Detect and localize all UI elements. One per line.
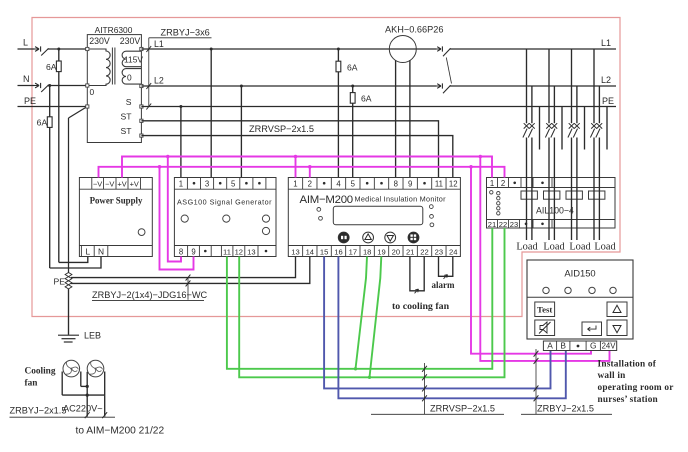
svg-text:S: S (126, 97, 132, 107)
svg-text:9: 9 (408, 180, 412, 189)
svg-text:2: 2 (501, 179, 505, 188)
fan wiring (61, 372, 63, 396)
AID150 indicator LEDs (543, 287, 549, 293)
load branch 4 L1 drop (593, 49, 595, 123)
svg-text:AITR6300: AITR6300 (95, 25, 133, 35)
wire PE drop to PE bar (diagonal) (69, 107, 88, 119)
wire PE bar to LEB earth (68, 289, 70, 335)
magenta drop to AIM terminal 1 (295, 157, 297, 178)
svg-text:N: N (98, 246, 104, 256)
AIM-M200 button down (385, 232, 396, 243)
green wire ASG100 terminal 12 to AIL100-4 terminal 22 (239, 228, 504, 377)
svg-text:12: 12 (235, 247, 243, 256)
disconnect switch on N (35, 83, 41, 88)
wire L feeder to power supply L terminal (59, 257, 88, 263)
svg-text:L1: L1 (601, 38, 611, 48)
svg-text:21: 21 (406, 247, 414, 256)
alarm output wires AIM terminals 23/24 (439, 257, 453, 277)
AIM-M200 button up (363, 232, 374, 243)
fan output wires AIM terminals 21/22 (410, 257, 424, 291)
CT1 secondary lead to AIM terminal 9 (409, 60, 411, 177)
svg-text:ST: ST (121, 112, 133, 122)
svg-text:21: 21 (488, 220, 496, 229)
svg-text:9: 9 (191, 247, 195, 256)
svg-text:ZRBYJ−2x1.5: ZRBYJ−2x1.5 (10, 406, 67, 416)
svg-text:AC220V~: AC220V~ (63, 404, 103, 414)
current transformer CT1 ring (389, 36, 416, 63)
breaker branch 4 pole L1 (591, 123, 597, 128)
load branch 4 PE stub (606, 107, 608, 150)
svg-text:ZRBYJ−2x1.5: ZRBYJ−2x1.5 (537, 404, 594, 414)
svg-text:Load: Load (516, 242, 538, 253)
cable label ZRRVSP-2x1.5 (signal) (424, 363, 426, 414)
magenta wire to AID150 terminal G (471, 167, 591, 354)
wire +V bus (magenta upper) (122, 157, 492, 178)
svg-text:ZRRVSP−2x1.5: ZRRVSP−2x1.5 (430, 404, 495, 414)
AIM-M200 button menu (338, 232, 349, 243)
svg-text:1: 1 (490, 179, 494, 188)
svg-text:L1: L1 (154, 39, 164, 49)
AIM-M200 display (333, 206, 423, 225)
load branch 1 PE stub (539, 107, 541, 150)
ASG100 top terminal row (174, 188, 276, 190)
AID150 down button (607, 320, 627, 336)
AIM-M200 small LEDs left (317, 208, 321, 212)
load branch 3 L1 drop (571, 49, 573, 123)
svg-text:+V: +V (117, 180, 126, 189)
svg-text:L2: L2 (601, 75, 611, 85)
breaker branch 1 pole L1 (524, 123, 530, 128)
svg-text:23: 23 (435, 247, 443, 256)
svg-text:6A: 6A (361, 94, 372, 104)
breaker branch 4 pole L2 (597, 123, 603, 128)
svg-text:A: A (547, 340, 553, 350)
AID150 divider (527, 296, 633, 298)
svg-text:16: 16 (334, 247, 342, 256)
AIM-M200 bottom terminal row (288, 245, 460, 247)
svg-text:11: 11 (223, 247, 231, 256)
junction dots on magenta buses (166, 155, 170, 159)
svg-text:L: L (85, 246, 90, 256)
green wire ASG100 terminal 11 to AIL100-4 terminal 21 (227, 228, 492, 369)
svg-text:alarm: alarm (432, 280, 455, 290)
wire tap L1 to ASG100 terminal 3 (210, 48, 213, 51)
cable guide line ZRBYJ-3x6 (148, 38, 150, 107)
svg-text:2: 2 (308, 180, 312, 189)
wire PE incoming (18, 106, 88, 108)
main switch Q1 pole L1 (437, 46, 443, 51)
svg-text:19: 19 (377, 247, 385, 256)
svg-text:13: 13 (247, 247, 255, 256)
svg-text:18: 18 (363, 247, 371, 256)
green wire AIM terminal 18 junction (356, 257, 368, 369)
wire N to transformer (48, 85, 88, 87)
cable label ZRBYJ-2(1x4)-JDG16-WC (186, 275, 191, 281)
blue wire AIM terminal 15 to AID150 terminal A (324, 257, 550, 389)
magenta drop to AIM terminal 2 (309, 167, 311, 178)
svg-text:B: B (560, 340, 566, 350)
AIL100-4 current sensor branch 1 (521, 191, 537, 199)
transformer primary winding (87, 49, 110, 86)
magenta wire to AID150 terminal 24V (480, 157, 609, 361)
svg-text:230V: 230V (89, 36, 110, 46)
wire tap L2 to ASG100 terminal 5 (240, 85, 243, 88)
svg-text:24V: 24V (602, 341, 617, 350)
magenta drop to ASG100 terminal 9 (160, 167, 194, 270)
wire L2 bus (141, 85, 436, 87)
svg-text:wall in: wall in (598, 371, 627, 381)
svg-text:AKH−0.66P26: AKH−0.66P26 (385, 25, 444, 35)
load branch 4 L2 drop (598, 86, 600, 123)
AIL100-4 top terminal row (487, 187, 616, 189)
load branch 2 wires through AIL100-4 (548, 138, 550, 241)
svg-text:ST: ST (121, 126, 133, 136)
svg-text:1: 1 (179, 180, 183, 189)
fuse F4 6A L2 tap to AIM terminal 5 (351, 85, 354, 88)
svg-text:11: 11 (435, 180, 443, 189)
wire L to transformer (48, 48, 88, 50)
svg-text:23: 23 (510, 220, 518, 229)
svg-text:−V: −V (93, 180, 102, 189)
svg-text:17: 17 (349, 247, 357, 256)
svg-text:0: 0 (127, 73, 132, 83)
svg-text:3: 3 (205, 180, 209, 189)
svg-text:Installation of: Installation of (598, 360, 657, 370)
signal generator U2 ASG100 body (174, 178, 276, 257)
AIM-M200 button display (408, 232, 419, 243)
svg-text:+V: +V (130, 180, 139, 189)
AIL100-4 indicator LEDs (490, 191, 493, 194)
load branch 1 wires through AIL100-4 (526, 138, 528, 241)
AID150 Test button (535, 302, 555, 317)
ASG100 indicator LEDs (181, 215, 188, 222)
wire ST2 to AIM terminal 12 (141, 136, 452, 178)
PE terminal bar (65, 273, 72, 277)
wire L incoming (18, 48, 35, 50)
svg-text:1: 1 (293, 180, 297, 189)
main switch Q1 pole L2 (437, 83, 443, 88)
breaker branch 2 pole L2 (552, 123, 558, 128)
svg-text:ZRBYJ−3x6: ZRBYJ−3x6 (161, 28, 210, 38)
breaker branch 1 pole L2 (529, 123, 535, 128)
magenta drop to ASG100 terminal 8 (168, 157, 181, 262)
breaker branch 3 pole L2 (574, 123, 580, 128)
green wire AIM terminal 19 junction (370, 257, 382, 378)
svg-text:14: 14 (306, 247, 314, 256)
wire -V bus (magenta lower) (99, 167, 505, 178)
AID150 terminal row (543, 341, 616, 351)
load branch 4 wires through AIL100-4 (593, 138, 595, 241)
svg-text:Load: Load (594, 242, 616, 253)
cooling fan motor M2 (87, 360, 104, 377)
remote indicator U4 AID150 body (527, 260, 633, 339)
svg-text:Power Supply: Power Supply (90, 196, 143, 206)
svg-text:PE: PE (602, 96, 614, 106)
load branch 2 PE stub (561, 107, 563, 150)
svg-text:fan: fan (25, 379, 39, 389)
load branch 3 wires through AIL100-4 (571, 138, 573, 241)
load branch 1 L1 drop (526, 49, 528, 123)
svg-text:8: 8 (394, 180, 398, 189)
blue wire AIM terminal 16 to AID150 terminal B (338, 257, 565, 399)
svg-text:13: 13 (291, 247, 299, 256)
transformer T1 body (87, 35, 141, 143)
svg-text:nurses’ station: nurses’ station (598, 395, 659, 405)
svg-text:ZRRVSP−2x1.5: ZRRVSP−2x1.5 (249, 124, 314, 134)
fan supply pair down (86, 386, 88, 416)
svg-text:20: 20 (392, 247, 400, 256)
AID150 mute button (535, 320, 555, 336)
load branch 2 L2 drop (553, 86, 555, 123)
svg-text:L: L (23, 37, 28, 47)
AIL100-4 current sensor branch 2 (544, 191, 560, 199)
earth electrode LEB (58, 334, 79, 336)
svg-text:AID150: AID150 (564, 268, 595, 279)
power supply top terminal row (79, 188, 152, 190)
svg-text:22: 22 (420, 247, 428, 256)
breaker branch 2 pole L1 (546, 123, 552, 128)
load branch 3 L2 drop (576, 86, 578, 123)
wire L1 bus (141, 48, 436, 50)
svg-text:22: 22 (499, 220, 507, 229)
protective conductor to AIM terminal 14 (71, 257, 310, 284)
svg-text:0: 0 (90, 87, 95, 97)
AIM-M200 small LEDs right (429, 205, 433, 209)
AIM-M200 top terminal row (288, 188, 460, 190)
svg-text:6A: 6A (46, 62, 57, 72)
svg-text:Load: Load (569, 242, 591, 253)
transformer terminal pins (86, 47, 89, 50)
svg-text:6A: 6A (347, 63, 358, 73)
transformer secondary winding 115V section (122, 51, 141, 66)
svg-text:PE: PE (24, 96, 36, 106)
fuse F3 6A L1 tap to AIM terminal 4 (337, 48, 340, 51)
svg-text:ASG100 Signal Generator: ASG100 Signal Generator (177, 198, 272, 207)
svg-text:4: 4 (336, 180, 341, 189)
switch Q1 mechanical link (446, 58, 451, 84)
power supply bottom terminal row (79, 245, 152, 247)
cable label ZRBYJ-2x1.5 (AID) (535, 349, 537, 414)
svg-text:N: N (23, 74, 30, 84)
disconnect switch on L (35, 46, 41, 51)
AID150 up button (607, 302, 627, 317)
monitor module AIL100-4 body (487, 178, 616, 229)
wire N incoming (18, 85, 35, 87)
svg-text:G: G (590, 340, 597, 350)
transformer core (111, 48, 113, 85)
svg-text:8: 8 (179, 247, 183, 256)
svg-text:PE: PE (54, 276, 66, 286)
load branch 3 PE stub (584, 107, 586, 150)
breaker branch 3 pole L1 (569, 123, 575, 128)
AIL100-4 bottom terminal row (487, 219, 616, 221)
transformer secondary winding 0 section (122, 69, 141, 85)
svg-text:L2: L2 (154, 76, 164, 86)
AIL100-4 current sensor branch 4 (589, 191, 605, 199)
fuse F2 6A on N feeder (49, 86, 51, 117)
svg-text:24: 24 (449, 247, 457, 256)
svg-text:operating room or: operating room or (598, 383, 674, 393)
protective conductor to AIM terminal 13 (71, 257, 296, 278)
load branch 1 L2 drop (531, 86, 533, 123)
svg-text:5: 5 (351, 180, 356, 189)
AID150 enter button (582, 322, 602, 336)
insulation monitor U3 AIM-M200 body (288, 178, 460, 257)
svg-text:−V: −V (105, 180, 114, 189)
power supply LED (138, 229, 145, 236)
AIL100-4 current sensor branch 3 (566, 191, 582, 199)
svg-text:230V: 230V (120, 36, 141, 46)
cooling fan motor M1 (63, 360, 80, 377)
svg-text:ZRBYJ−2(1x4)−JDG16−WC: ZRBYJ−2(1x4)−JDG16−WC (92, 290, 208, 300)
ASG100 bottom terminal row (174, 245, 276, 247)
power supply U1 body (79, 178, 152, 257)
svg-text:Cooling: Cooling (25, 367, 56, 377)
svg-text:Medical Insulation Monitor: Medical Insulation Monitor (355, 195, 447, 204)
wire ST1 to AIM terminal 11 (141, 121, 438, 178)
load branch 2 L1 drop (548, 49, 550, 123)
svg-text:LEB: LEB (84, 331, 101, 341)
wire tap S to ASG100 terminal 1 (179, 105, 182, 108)
svg-text:115V: 115V (124, 55, 143, 65)
svg-text:AIM−M200: AIM−M200 (300, 194, 353, 206)
svg-text:12: 12 (449, 180, 458, 189)
svg-text:Test: Test (537, 304, 552, 314)
svg-text:to AIM−M200 21/22: to AIM−M200 21/22 (76, 426, 165, 437)
fuse F1 6A on L feeder (58, 49, 60, 61)
CT1 secondary lead to AIM terminal 8 (395, 60, 397, 177)
svg-text:Load: Load (543, 242, 565, 253)
svg-text:5: 5 (231, 180, 236, 189)
svg-text:to cooling fan: to cooling fan (392, 301, 450, 312)
wire N feeder to power supply N terminal (50, 257, 101, 269)
svg-text:6A: 6A (37, 118, 48, 128)
wire PE bus (S) (141, 106, 616, 108)
svg-text:15: 15 (320, 247, 328, 256)
